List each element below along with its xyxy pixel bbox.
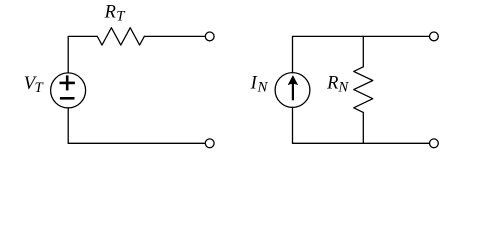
voltage source V_T circle bbox=[51, 73, 86, 108]
voltage source plus sign bbox=[60, 75, 75, 90]
svg-text:T: T bbox=[116, 8, 126, 24]
current source I_N circle bbox=[275, 73, 310, 108]
wire: left circuit top-left segment bbox=[68, 36, 97, 73]
svg-text:R: R bbox=[104, 3, 116, 23]
terminal node a (top, left circuit) bbox=[205, 32, 214, 41]
wire: resistor branch top segment bbox=[362, 36, 364, 66]
label R_T bbox=[104, 3, 127, 25]
terminal node d (bottom, right circuit) bbox=[430, 139, 439, 148]
wire: left circuit bottom horizontal bbox=[68, 142, 205, 144]
svg-text:R: R bbox=[326, 74, 338, 94]
label R_N bbox=[326, 74, 349, 96]
voltage source minus sign bbox=[60, 97, 75, 100]
resistor R_N zigzag bbox=[354, 67, 373, 113]
svg-text:N: N bbox=[257, 80, 269, 96]
terminal node b (bottom, left circuit) bbox=[205, 139, 214, 148]
svg-text:N: N bbox=[337, 79, 349, 95]
current source arrow bbox=[288, 76, 298, 101]
wire: right circuit bottom-left vertical bbox=[292, 107, 294, 143]
terminal node c (top, right circuit) bbox=[430, 32, 439, 41]
resistor R_T zigzag bbox=[97, 28, 144, 45]
wire: left circuit bottom-left vertical bbox=[67, 108, 69, 143]
label V_T bbox=[24, 74, 45, 96]
wire: right circuit bottom horizontal bbox=[293, 142, 430, 144]
wire: left circuit top-right segment bbox=[144, 35, 205, 37]
wire: right circuit top horizontal bbox=[293, 36, 430, 72]
svg-text:T: T bbox=[35, 80, 45, 96]
label I_N bbox=[250, 73, 269, 95]
wire: resistor branch bottom segment bbox=[362, 112, 364, 143]
svg-text:I: I bbox=[250, 73, 258, 93]
